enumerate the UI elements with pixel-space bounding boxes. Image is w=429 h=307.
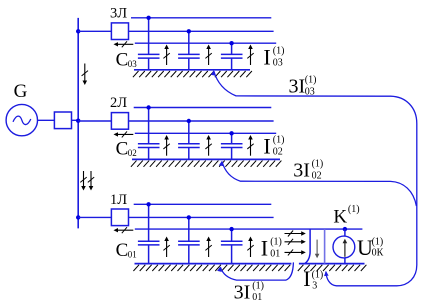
svg-text:03: 03 (128, 59, 138, 69)
svg-text:(1): (1) (252, 280, 264, 291)
svg-text:C: C (116, 50, 129, 71)
svg-text:01: 01 (270, 249, 280, 260)
svg-text:(1): (1) (270, 237, 282, 248)
svg-text:3: 3 (312, 280, 317, 291)
svg-text:K: K (333, 206, 347, 227)
svg-text:2Л: 2Л (110, 95, 127, 111)
svg-text:02: 02 (312, 170, 322, 181)
svg-text:03: 03 (305, 86, 315, 97)
svg-text:02: 02 (273, 146, 283, 157)
svg-text:3I: 3I (234, 282, 251, 304)
svg-text:(1): (1) (305, 75, 317, 86)
svg-text:I: I (261, 236, 268, 261)
svg-text:(1): (1) (372, 236, 384, 247)
svg-text:03: 03 (273, 57, 283, 68)
svg-text:01: 01 (252, 292, 262, 303)
svg-text:3I: 3I (289, 76, 306, 98)
svg-text:(1): (1) (348, 204, 360, 215)
svg-text:C: C (116, 240, 129, 261)
svg-text:I: I (263, 44, 270, 69)
svg-text:01: 01 (128, 249, 137, 259)
svg-text:I: I (263, 133, 270, 158)
svg-text:U: U (357, 235, 373, 260)
svg-text:(1): (1) (273, 134, 285, 145)
svg-text:(1): (1) (273, 45, 285, 56)
svg-text:I: I (303, 266, 310, 291)
svg-text:G: G (14, 81, 28, 102)
svg-text:1Л: 1Л (110, 192, 127, 208)
svg-text:C: C (116, 139, 129, 160)
svg-text:0К: 0К (372, 247, 384, 258)
svg-text:3I: 3I (293, 160, 310, 182)
svg-text:(1): (1) (312, 158, 324, 169)
svg-text:(1): (1) (312, 270, 324, 281)
svg-text:3Л: 3Л (110, 5, 127, 21)
svg-text:02: 02 (128, 148, 137, 158)
